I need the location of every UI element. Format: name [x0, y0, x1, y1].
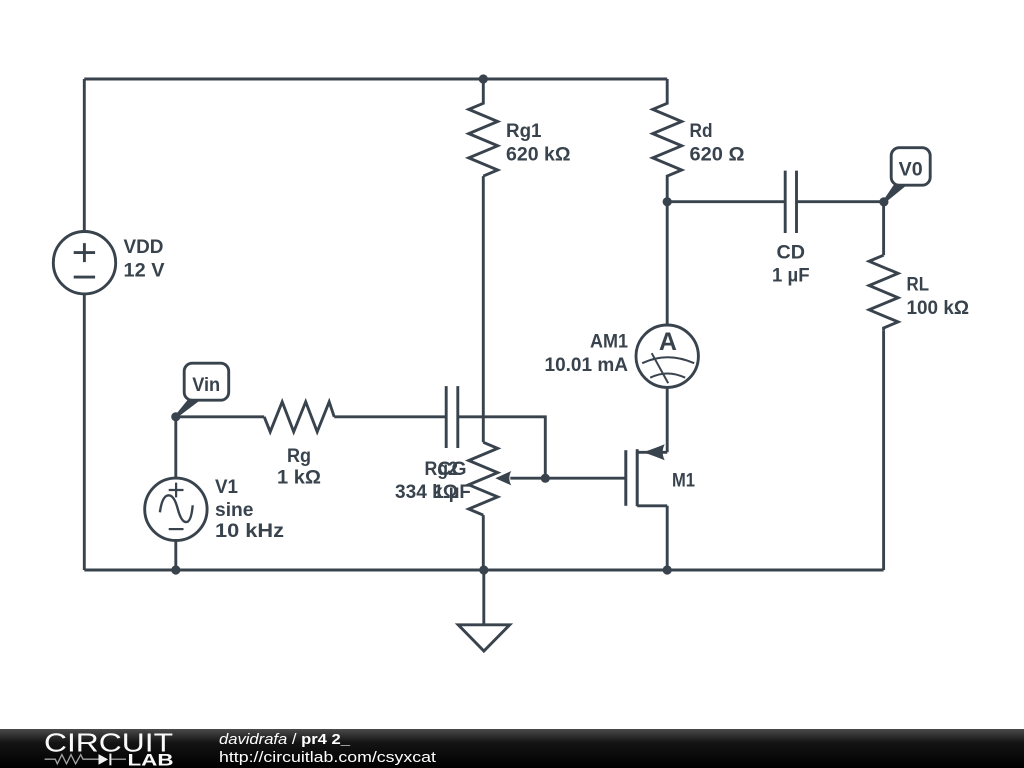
logo resistor squiggle and diode [45, 754, 126, 766]
svg-text:sine: sine [215, 500, 254, 521]
resistor Rg [264, 402, 334, 432]
svg-text:CD: CD [777, 242, 806, 263]
svg-text:Rg1: Rg1 [506, 121, 542, 142]
label circuitlab url [219, 749, 437, 766]
wire left rail lower [83, 294, 86, 570]
wire CG to wiper node [458, 417, 546, 478]
label V0 [899, 160, 923, 181]
label Vin [192, 375, 220, 396]
wire Vin node to Rg [176, 415, 264, 418]
voltage source VDD [53, 232, 115, 294]
svg-text:davidrafa / pr4 2_: davidrafa / pr4 2_ [219, 731, 351, 748]
wire V0 node to RL [882, 202, 885, 256]
wire top rail [84, 78, 667, 81]
label A of ammeter [659, 328, 677, 356]
node output junction [663, 197, 672, 206]
node top junction at Rg1 [479, 74, 488, 83]
potentiometer Rg2 [469, 442, 546, 515]
wire output node to AM1 [666, 202, 669, 326]
wire AM1 to M1 drain [666, 387, 669, 452]
node V1 bottom junction [171, 565, 180, 574]
node V0 [879, 197, 888, 206]
svg-text:1 µF: 1 µF [772, 265, 810, 286]
label AM1 10.01 mA [545, 332, 629, 377]
svg-text:620 Ω: 620 Ω [690, 144, 745, 165]
svg-text:V1: V1 [215, 477, 238, 498]
wire Rg to CG [334, 415, 446, 418]
wire M1 source to bottom rail [666, 506, 669, 570]
svg-text:Rg2: Rg2 [425, 459, 459, 480]
wire output node to CD [667, 200, 785, 203]
transistor M1 [626, 444, 667, 506]
node Vin [171, 412, 180, 421]
label VDD 12 V [124, 237, 165, 282]
wire left rail upper [83, 79, 86, 232]
svg-text:RL: RL [907, 275, 930, 296]
svg-text:http://circuitlab.com/csyxcat: http://circuitlab.com/csyxcat [219, 749, 437, 766]
flag V0 [884, 148, 930, 202]
svg-text:1 kΩ: 1 kΩ [277, 467, 321, 488]
wire V1 top [174, 417, 177, 478]
svg-text:10.01 mA: 10.01 mA [545, 355, 629, 376]
wire Rg1 to Rg2 [482, 176, 485, 442]
label Rg1 620 kΩ [506, 121, 571, 166]
svg-text:V0: V0 [899, 160, 923, 181]
wire ground stem [482, 570, 485, 625]
svg-text:VDD: VDD [124, 237, 164, 258]
resistor Rg1 [469, 79, 498, 176]
svg-text:AM1: AM1 [590, 332, 628, 353]
logo CIRCUIT text [44, 728, 173, 758]
capacitor CG [446, 386, 458, 448]
ground [458, 625, 510, 651]
svg-text:10 kHz: 10 kHz [215, 521, 284, 542]
node wiper junction [541, 474, 550, 483]
label CG 1 µF [433, 459, 471, 503]
wire V1 bottom [174, 541, 177, 571]
label Rg 1 kΩ [277, 446, 321, 489]
svg-text:12 V: 12 V [124, 261, 165, 282]
logo LAB text [128, 751, 174, 768]
resistor Rd [653, 79, 682, 202]
svg-text:334 kΩ: 334 kΩ [395, 482, 458, 503]
svg-text:M1: M1 [672, 471, 695, 492]
node ground junction [479, 565, 488, 574]
capacitor CD [785, 171, 796, 233]
flag Vin [176, 363, 229, 417]
wire CD to V0 node [797, 200, 884, 203]
label davidrafa / pr4 2_ [219, 731, 351, 748]
wire bottom rail [84, 569, 883, 572]
resistor RL [869, 255, 898, 330]
wire Rg2 to bottom rail [482, 515, 485, 570]
svg-text:100 kΩ: 100 kΩ [907, 298, 970, 319]
svg-text:A: A [659, 328, 677, 356]
label Rg2 334 kΩ [395, 459, 458, 503]
wire RL to bottom rail [882, 330, 885, 570]
label CD 1 µF [772, 242, 810, 286]
svg-text:Vin: Vin [192, 375, 220, 396]
svg-text:Rd: Rd [690, 121, 713, 142]
label M1 [672, 471, 695, 492]
svg-text:LAB: LAB [128, 751, 174, 768]
label RL 100 kΩ [907, 275, 970, 320]
label V1 sine 10 kHz [215, 477, 284, 542]
svg-text:Rg: Rg [287, 446, 311, 467]
ammeter AM1 [636, 325, 698, 387]
label Rd 620 Ω [690, 121, 745, 166]
wire wiper node to M1 gate [545, 477, 626, 480]
voltage source V1 [145, 478, 207, 540]
node M1 source junction [663, 565, 672, 574]
svg-text:620 kΩ: 620 kΩ [506, 144, 571, 165]
